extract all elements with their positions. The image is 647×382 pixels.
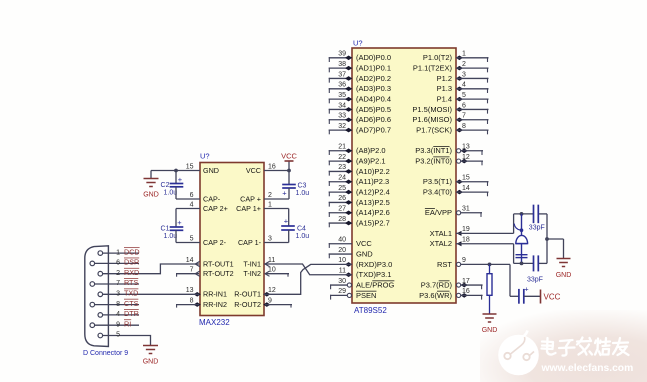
svg-text:33: 33: [338, 113, 346, 120]
svg-text:10: 10: [268, 267, 276, 274]
svg-text:T-IN1: T-IN1: [243, 259, 261, 268]
svg-text:(AD0)P0.0: (AD0)P0.0: [356, 53, 391, 62]
svg-text:U?: U?: [353, 39, 363, 48]
svg-text:29: 29: [338, 288, 346, 295]
svg-text:P1.3: P1.3: [437, 84, 452, 93]
svg-text:11: 11: [268, 257, 275, 264]
svg-text:7: 7: [190, 267, 194, 274]
svg-text:18: 18: [462, 237, 470, 244]
svg-text:+: +: [282, 189, 287, 198]
svg-text:P3.6(WR): P3.6(WR): [419, 291, 452, 300]
svg-text:C2: C2: [161, 182, 170, 189]
svg-text:10: 10: [338, 257, 346, 264]
svg-text:(AD7)P0.7: (AD7)P0.7: [356, 126, 391, 135]
svg-text:4: 4: [116, 311, 120, 318]
svg-text:9: 9: [462, 257, 466, 264]
svg-text:12: 12: [268, 287, 276, 294]
svg-text:P3.3(INT1): P3.3(INT1): [415, 146, 452, 155]
svg-text:30: 30: [338, 278, 346, 285]
svg-text:9: 9: [116, 321, 120, 328]
svg-text:P1.5(MOSI): P1.5(MOSI): [412, 105, 452, 114]
svg-text:VCC: VCC: [356, 239, 372, 248]
svg-text:2: 2: [116, 270, 120, 277]
svg-text:GND: GND: [143, 192, 159, 199]
svg-text:CAP 2-: CAP 2-: [203, 238, 227, 247]
svg-text:6: 6: [462, 102, 466, 109]
svg-text:ALE/PROG: ALE/PROG: [356, 280, 395, 289]
svg-text:XTAL2: XTAL2: [430, 239, 452, 248]
svg-text:XTAL1: XTAL1: [430, 229, 452, 238]
svg-text:RR-IN1: RR-IN1: [203, 290, 227, 299]
svg-text:11: 11: [339, 268, 346, 275]
svg-text:U?: U?: [200, 152, 210, 161]
svg-text:6: 6: [116, 260, 120, 267]
svg-text:GND: GND: [556, 272, 572, 279]
svg-text:(AD5)P0.5: (AD5)P0.5: [356, 105, 391, 114]
svg-text:R-OUT2: R-OUT2: [234, 300, 261, 309]
svg-text:1: 1: [116, 249, 120, 256]
svg-text:13: 13: [186, 287, 194, 294]
svg-text:8: 8: [190, 297, 194, 304]
svg-text:15: 15: [186, 163, 194, 170]
svg-text:VCC: VCC: [281, 152, 297, 161]
svg-text:(AD1)P0.1: (AD1)P0.1: [356, 64, 391, 73]
svg-text:1.0u: 1.0u: [296, 233, 310, 240]
svg-text:RXD: RXD: [124, 268, 139, 277]
svg-text:VCC: VCC: [544, 293, 561, 302]
svg-text:(A11)P2.3: (A11)P2.3: [356, 177, 389, 186]
svg-text:PSEN: PSEN: [356, 291, 376, 300]
svg-text:CAP 1-: CAP 1-: [238, 238, 262, 247]
svg-text:2: 2: [268, 192, 272, 199]
svg-text:24: 24: [338, 175, 346, 182]
svg-text:CAP-: CAP-: [203, 194, 221, 203]
svg-text:31: 31: [462, 206, 470, 213]
svg-text:33pF: 33pF: [529, 225, 545, 232]
svg-text:(RXD)P3.0: (RXD)P3.0: [356, 260, 392, 269]
svg-text:+: +: [524, 285, 529, 294]
svg-text:+: +: [178, 175, 183, 184]
svg-text:7: 7: [462, 113, 466, 120]
svg-text:16: 16: [268, 163, 276, 170]
svg-text:19: 19: [462, 226, 470, 233]
svg-text:GND: GND: [203, 166, 219, 175]
svg-text:23: 23: [338, 164, 346, 171]
svg-text:P1.0(T2): P1.0(T2): [423, 53, 453, 62]
svg-text:CTS: CTS: [124, 299, 139, 308]
svg-text:7: 7: [116, 280, 120, 287]
svg-text:35: 35: [338, 92, 346, 99]
svg-text:27: 27: [338, 206, 346, 213]
svg-text:DTR: DTR: [124, 309, 139, 318]
svg-text:3: 3: [116, 291, 120, 298]
svg-text:(A9)P2.1: (A9)P2.1: [356, 157, 386, 166]
svg-text:D Connector 9: D Connector 9: [83, 350, 128, 357]
svg-text:(TXD)P3.1: (TXD)P3.1: [356, 270, 391, 279]
svg-text:6: 6: [190, 192, 194, 199]
svg-text:(A10)P2.2: (A10)P2.2: [356, 167, 390, 176]
svg-text:P1.6(MISO): P1.6(MISO): [412, 115, 452, 124]
svg-text:GND: GND: [482, 327, 498, 334]
svg-text:(A13)P2.5: (A13)P2.5: [356, 198, 390, 207]
svg-text:28: 28: [338, 216, 346, 223]
svg-text:P1.1(T2EX): P1.1(T2EX): [413, 64, 453, 73]
svg-text:DCD: DCD: [124, 247, 140, 256]
svg-text:TXD: TXD: [124, 289, 138, 298]
svg-text:CAP 2+: CAP 2+: [203, 204, 228, 213]
svg-text:RI: RI: [124, 319, 131, 328]
svg-text:P1.7(SCK): P1.7(SCK): [416, 126, 452, 135]
svg-text:+: +: [177, 218, 182, 227]
svg-text:C4: C4: [297, 226, 306, 233]
svg-text:www.elecfans.com: www.elecfans.com: [541, 363, 634, 374]
svg-text:P1.4: P1.4: [437, 95, 452, 104]
svg-text:14: 14: [186, 257, 194, 264]
svg-text:(AD6)P0.6: (AD6)P0.6: [356, 115, 391, 124]
svg-text:C1: C1: [161, 226, 170, 233]
svg-text:3: 3: [268, 235, 272, 242]
svg-text:RT-OUT1: RT-OUT1: [203, 259, 234, 268]
svg-text:AT89S52: AT89S52: [354, 306, 387, 315]
svg-text:P3.4(T0): P3.4(T0): [423, 187, 453, 196]
svg-text:(A12)P2.4: (A12)P2.4: [356, 187, 390, 196]
svg-text:(AD4)P0.4: (AD4)P0.4: [356, 95, 391, 104]
svg-text:2: 2: [462, 61, 466, 68]
svg-text:37: 37: [338, 71, 346, 78]
svg-text:25: 25: [338, 185, 346, 192]
svg-text:P3.2(INT0): P3.2(INT0): [415, 157, 452, 166]
svg-text:P3.7(RD): P3.7(RD): [421, 280, 453, 289]
svg-text:32: 32: [338, 123, 346, 130]
svg-text:(A14)P2.6: (A14)P2.6: [356, 208, 390, 217]
svg-text:1.0u: 1.0u: [296, 190, 310, 197]
svg-text:3: 3: [462, 71, 466, 78]
svg-text:GND: GND: [143, 359, 159, 366]
svg-text:8: 8: [462, 123, 466, 130]
svg-text:RT-OUT2: RT-OUT2: [203, 269, 234, 278]
svg-text:1.0u: 1.0u: [164, 233, 178, 240]
svg-text:1.0u: 1.0u: [164, 190, 178, 197]
svg-text:VCC: VCC: [246, 166, 261, 175]
svg-text:RTS: RTS: [124, 278, 138, 287]
svg-text:T-IN2: T-IN2: [243, 269, 261, 278]
svg-text:(A8)P2.0: (A8)P2.0: [356, 146, 386, 155]
svg-text:4: 4: [190, 201, 194, 208]
svg-text:(A15)P2.7: (A15)P2.7: [356, 218, 390, 227]
svg-text:5: 5: [116, 332, 120, 339]
svg-text:9: 9: [268, 297, 272, 304]
svg-text:1: 1: [462, 51, 466, 58]
svg-text:26: 26: [338, 195, 346, 202]
svg-text:38: 38: [338, 61, 346, 68]
svg-text:CAP 1+: CAP 1+: [236, 204, 261, 213]
svg-text:MAX232: MAX232: [199, 318, 230, 327]
svg-text:(AD3)P0.3: (AD3)P0.3: [356, 84, 391, 93]
svg-text:RST: RST: [437, 260, 452, 269]
svg-text:P3.5(T1): P3.5(T1): [423, 177, 453, 186]
svg-text:GND: GND: [356, 249, 373, 258]
svg-text:33pF: 33pF: [527, 277, 543, 284]
svg-text:14: 14: [462, 185, 470, 192]
svg-text:EA/VPP: EA/VPP: [425, 208, 452, 217]
svg-text:DSR: DSR: [124, 258, 139, 267]
svg-text:21: 21: [338, 144, 346, 151]
svg-text:34: 34: [338, 102, 346, 109]
svg-text:15: 15: [462, 175, 470, 182]
svg-text:39: 39: [338, 51, 346, 58]
svg-text:RR-IN2: RR-IN2: [203, 300, 227, 309]
svg-text:CAP +: CAP +: [240, 194, 261, 203]
svg-text:(AD2)P0.2: (AD2)P0.2: [356, 74, 391, 83]
svg-text:20: 20: [338, 247, 346, 254]
svg-text:5: 5: [190, 235, 194, 242]
svg-text:+: +: [284, 217, 289, 226]
svg-text:5: 5: [462, 92, 466, 99]
svg-text:1: 1: [268, 201, 272, 208]
svg-text:C3: C3: [298, 183, 307, 190]
svg-text:4: 4: [462, 82, 466, 89]
svg-text:R-OUT1: R-OUT1: [234, 290, 261, 299]
svg-text:8: 8: [116, 301, 120, 308]
svg-text:P1.2: P1.2: [437, 74, 452, 83]
svg-text:40: 40: [338, 237, 346, 244]
svg-text:36: 36: [338, 82, 346, 89]
svg-text:22: 22: [338, 154, 346, 161]
